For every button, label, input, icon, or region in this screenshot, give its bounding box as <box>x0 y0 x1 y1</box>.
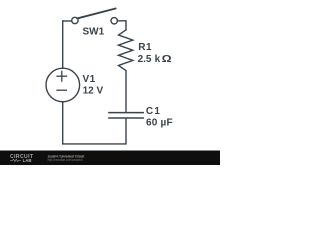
svg-text:http://circuitlab.com/czsush4/: http://circuitlab.com/czsush4/ <box>48 158 83 162</box>
svg-text:C1: C1 <box>146 106 161 117</box>
svg-text:60 µF: 60 µF <box>146 118 173 129</box>
svg-text:12 V: 12 V <box>83 85 104 96</box>
svg-text:R1: R1 <box>138 42 152 53</box>
svg-text:LAB: LAB <box>23 158 32 163</box>
svg-text:2.5kΩ: 2.5kΩ <box>138 54 172 65</box>
svg-text:SW1: SW1 <box>83 27 105 38</box>
svg-text:V1: V1 <box>83 74 96 85</box>
